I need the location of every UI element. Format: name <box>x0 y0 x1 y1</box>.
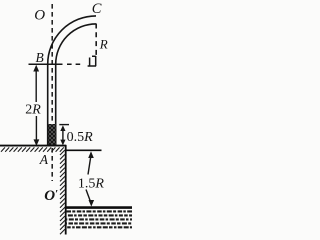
B level line (solid part) <box>29 63 63 65</box>
0.5R top tick <box>59 124 69 126</box>
cliff wall hatch <box>60 150 65 234</box>
upper ground hatch <box>1 147 64 151</box>
dashed radius line C down to bend center <box>95 24 97 56</box>
svg-text:B: B <box>36 50 44 65</box>
svg-text:R: R <box>99 37 108 52</box>
tube right wall <box>55 64 57 146</box>
svg-text:A: A <box>39 152 49 167</box>
extension line at platform top level <box>65 149 102 151</box>
bend outer arc <box>48 16 96 64</box>
svg-text:C: C <box>92 1 102 17</box>
1.5R dimension lower arrow (points down) <box>86 190 91 204</box>
svg-text:2R: 2R <box>25 103 41 118</box>
plug inside tube (hatched piston) <box>49 124 56 146</box>
lower ground line (water surface) <box>65 206 132 209</box>
dashed horizontal radius to bend center <box>67 63 81 65</box>
1.5R dimension upper arrow (points up) <box>88 151 94 158</box>
water shading band <box>66 211 132 227</box>
2R dimension lower arrow (points down to ground) <box>35 116 37 142</box>
upper ground line <box>0 145 66 147</box>
tube left wall <box>47 64 49 146</box>
svg-text:1.5R: 1.5R <box>78 176 105 191</box>
right-angle mark at bend center <box>88 56 97 66</box>
0.5R dimension arrows <box>60 125 65 131</box>
bend inner arc <box>56 24 96 64</box>
svg-text:0.5R: 0.5R <box>67 130 94 145</box>
cliff wall line <box>65 145 67 235</box>
svg-text:O: O <box>34 7 45 23</box>
axis line O-O' (dashed vertical tube centerline) <box>51 4 53 181</box>
2R dimension upper arrow (points up to B line) <box>35 69 37 103</box>
